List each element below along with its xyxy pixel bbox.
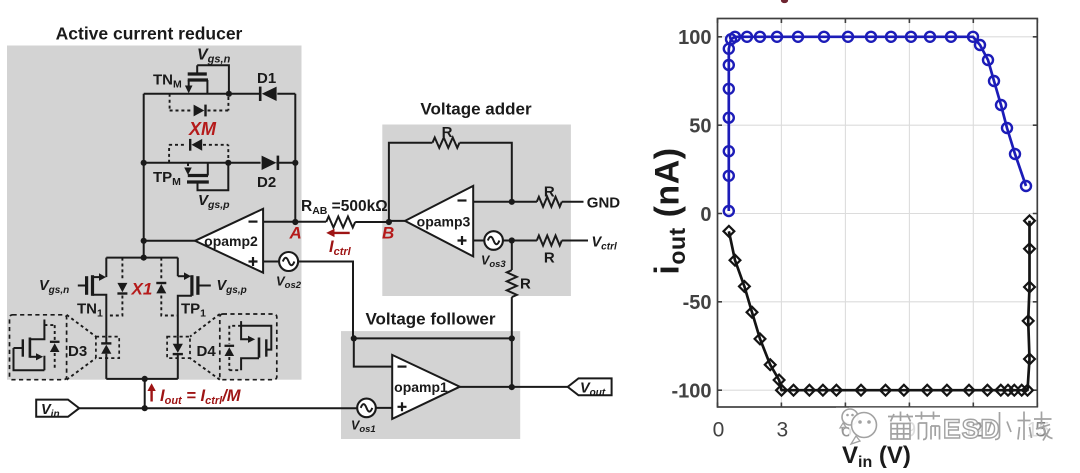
plot: axes background [718,19,1038,408]
svg-text:iout (nA): iout (nA) [649,147,691,274]
svg-text:D1: D1 [257,70,276,87]
transistor TN_M (diode-connected NMOS) [185,65,229,94]
transistor TP_M (diode-connected PMOS) [184,163,228,190]
wire: opamp3 plus input [473,240,484,242]
wire: opamp1 plus input [376,407,392,409]
transistor TP_1 [178,258,211,337]
callout dashes: D4 detail [190,314,220,380]
terminal V_out [568,378,612,395]
plot: leftover red title mark [781,0,788,3]
plot: blue curve (i_out positive branch) [729,37,1026,211]
watermark CJK glyph 1 (fan) [888,412,913,440]
op-amp U2 (opamp2, points left) [195,209,263,273]
wire: X1 bottom row [106,378,178,380]
svg-text:3: 3 [777,419,789,442]
wire: V_os2 to follower node [298,262,353,339]
svg-text:R: R [544,250,555,267]
wire: opamp3 minus input row [473,201,537,203]
resistor R_AB [326,217,355,228]
svg-text:R: R [520,276,531,293]
detail box: D3 expanded view (NMOS with body diode) [10,315,67,380]
svg-text:A: A [289,224,302,243]
wire: X1 top row [106,257,178,259]
plot: tick marks [718,19,1038,408]
transistor TN_1 [78,258,107,337]
svg-text:0: 0 [700,204,711,226]
block background: active current reducer [7,46,302,380]
current arrow I_out [150,390,152,402]
watermark CJK glyph 3 (xiao) [988,412,1011,440]
wire: follower feedback top [354,337,512,339]
svg-text:D2: D2 [257,174,276,191]
wire: left rail down to X1 top [141,255,147,261]
svg-text:Voltage follower: Voltage follower [365,310,495,329]
plot: axes box [718,19,1038,408]
svg-text:Voltage adder: Voltage adder [420,100,532,119]
watermark veil [849,408,1064,445]
wire: left rail [143,94,145,258]
svg-text:100: 100 [678,27,711,49]
svg-text:Iout = Ictrl/M: Iout = Ictrl/M [160,387,242,407]
svg-text:-100: -100 [671,381,711,403]
wire: opamp2 minus input to node A [263,221,326,223]
svg-text:R: R [442,124,453,141]
node A [292,219,298,225]
block background: voltage follower [341,331,520,439]
resistor R (to V_ctrl) [537,236,562,246]
svg-text:ESD: ESD [943,414,1001,444]
svg-text:R: R [544,184,555,201]
svg-text:GND: GND [587,195,621,212]
diode D1 [260,87,276,101]
wire: feedback loop of adder [389,143,433,222]
wire: opamp2 output to left rail [144,240,195,242]
wire: plus node down to R [511,241,513,271]
detail box: D4 expanded view (PMOS with body diode) [220,314,277,380]
wire: opamp2 plus input [263,261,279,263]
watermark logo (chat bubbles) [840,409,877,444]
wire: V_in row [79,407,357,409]
wire: output feedback vertical [511,338,513,387]
resistor R (to GND) [537,197,562,207]
wire: down to V_in line [144,379,146,408]
watermark CJK glyph 4 (zhan) [1018,412,1053,441]
source V_os2 [279,252,298,271]
op-amp U3 (opamp3, points left) [405,186,473,257]
wire: TP_M row [144,162,261,164]
block background: voltage adder [382,125,571,297]
svg-text:opamp3: opamp3 [417,214,471,230]
svg-text:50: 50 [689,116,711,138]
callout dashes: D3 detail [67,315,96,380]
svg-text:opamp1: opamp1 [394,379,448,395]
wire: TN_M drain row (node top) [144,93,260,95]
watermark CJK glyph 2 (qie) [915,412,940,440]
svg-text:X1: X1 [131,280,153,299]
svg-text:XM: XM [188,119,217,139]
wire: opamp1 output to V_out [460,386,568,388]
body diode pair X1 (dashed) [106,258,178,316]
svg-text:RAB =500kΩ: RAB =500kΩ [301,198,388,217]
diode D3 (in small dashed box) [96,337,119,379]
plot: blue circle markers [724,32,1031,216]
plot: black diamond markers [724,215,1035,395]
node: rail junctions [226,91,232,97]
source V_os3 [484,231,503,250]
svg-text:-50: -50 [683,292,712,314]
svg-text:Active current reducer: Active current reducer [56,24,243,44]
op-amp U1 (opamp1, points right) [392,355,460,419]
node B [386,219,392,225]
svg-text:Vin (V): Vin (V) [842,442,911,471]
body diode of TN_M (dashed box) [170,94,229,117]
svg-text:D3: D3 [68,343,87,360]
svg-text:D4: D4 [197,343,217,360]
terminal V_in [36,400,79,417]
svg-text:opamp2: opamp2 [204,233,258,249]
plot: black curve (i_out negative branch) [729,221,1030,390]
svg-text:Vctrl: Vctrl [592,235,617,253]
diode D4 (in small dashed box) [167,337,190,379]
resistor R (adder feedback) [433,138,460,148]
body diode of TP_M (dashed box) [169,139,228,163]
resistor R (vertical, to follower output) [507,270,517,297]
wire: feedback to minus input [354,338,392,366]
wire: vertical R down to follower feedback node [511,297,513,338]
svg-text:0: 0 [713,419,725,442]
source V_os1 [357,399,376,418]
svg-text:B: B [382,224,394,243]
wire: right rail [294,94,296,222]
diode D2 [262,156,278,170]
current arrow I_ctrl [333,232,350,234]
svg-text:Ictrl: Ictrl [329,238,352,258]
wire: opamp3 output to node B [389,220,405,222]
plot: gridlines [718,19,1038,408]
